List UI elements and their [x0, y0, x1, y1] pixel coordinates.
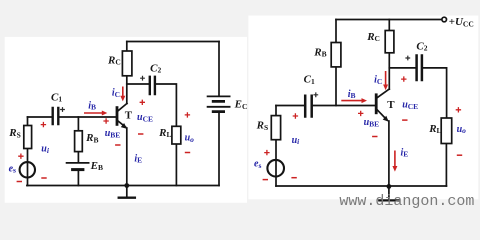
plus uCE (left) — [140, 100, 145, 105]
svg-text:es: es — [9, 163, 16, 174]
resistor RL — [441, 118, 452, 144]
plus ui (right) — [293, 113, 298, 118]
resistor RS — [271, 116, 280, 140]
left canvas — [5, 37, 247, 203]
wire: RB to EB — [77, 152, 79, 163]
svg-text:iE: iE — [134, 153, 142, 164]
wire: C1 to base — [59, 116, 115, 118]
wire: base rail left — [276, 105, 304, 107]
minus es (right) — [263, 179, 268, 181]
source es circle — [267, 160, 284, 177]
source es circle — [20, 162, 35, 177]
minus uBE (right) — [372, 136, 377, 138]
black capacitor polarity plus marks — [60, 56, 410, 112]
transistor T2 collector diagonal — [377, 89, 389, 98]
transistor T1 collector diagonal — [118, 103, 127, 111]
+Ucc terminal — [442, 17, 447, 22]
plus C2 (left) — [140, 76, 145, 81]
plus C1 (right) — [313, 92, 318, 97]
wire: top rail — [336, 19, 441, 21]
wire: emitter vertical — [126, 128, 128, 186]
wire: RB bottom stub — [335, 67, 337, 106]
plus es (right) — [264, 150, 269, 155]
svg-text:es: es — [254, 159, 261, 170]
wire: C1 to base — [313, 105, 375, 107]
battery EC plates — [208, 96, 230, 106]
minus uo (left) — [185, 152, 190, 154]
capacitor C1 plates — [53, 108, 59, 124]
wire: collector vertical — [126, 76, 128, 104]
capacitor C1 plates — [305, 96, 312, 117]
capacitor C2 plates — [150, 77, 155, 94]
wire: RB stub — [77, 117, 79, 131]
arrow iB (left) — [84, 112, 102, 114]
arrow iC (right) — [385, 71, 387, 85]
svg-text:iE: iE — [401, 147, 409, 158]
svg-text:iB: iB — [348, 89, 356, 100]
arrow iC (left) — [122, 87, 124, 97]
minus es (left) — [17, 181, 22, 183]
junction dot (left) — [124, 183, 129, 188]
wire: RL bottom — [445, 144, 447, 187]
ground (right) — [388, 187, 390, 201]
wire: emitter vertical — [388, 121, 390, 187]
svg-text:uBE: uBE — [364, 117, 380, 128]
arrow iE (right) — [394, 151, 396, 167]
svg-text:uo: uo — [457, 124, 467, 135]
wire: main input rail — [28, 116, 52, 118]
red polarity marks — [17, 76, 463, 181]
wire: RB top stub — [335, 20, 337, 43]
svg-text:T: T — [387, 99, 395, 111]
minus uCE (left) — [138, 133, 143, 135]
plus uCE (right) — [401, 76, 406, 81]
minus uCE (right) — [402, 119, 407, 121]
svg-text:www.diangon.com: www.diangon.com — [339, 193, 474, 210]
resistor RB — [75, 131, 83, 152]
wire: RS corner — [275, 106, 277, 116]
plus uBE (right) — [358, 111, 363, 116]
svg-text:uo: uo — [185, 133, 195, 144]
transistor T1 emitter arrowhead — [121, 123, 127, 129]
wire: C2 right to RL — [423, 68, 446, 118]
minus ui (right) — [291, 177, 296, 179]
junction dot (right) — [387, 184, 392, 189]
wire: bottom rail — [27, 185, 219, 187]
wire: source vertical — [275, 140, 277, 186]
plus es (left) — [18, 154, 23, 159]
svg-text:ui: ui — [292, 135, 301, 146]
plus C1 (left) — [60, 107, 65, 112]
wire: C2 branch — [127, 83, 149, 85]
wire: EB bottom — [77, 171, 79, 186]
minus uBE (left) — [115, 144, 120, 146]
svg-text:T: T — [125, 110, 133, 122]
wire: C2 branch — [389, 67, 415, 69]
wire: top rail — [127, 41, 219, 43]
plus uBE (left) — [103, 118, 108, 123]
plus uo (left) — [185, 112, 190, 117]
resistor RL — [172, 126, 181, 144]
minus ui (left) — [41, 177, 46, 179]
plus ui (left) — [41, 122, 46, 127]
resistor RS — [24, 126, 32, 149]
capacitor C2 plates — [417, 56, 422, 81]
transistor T2 emitter arrowhead — [383, 116, 389, 122]
wire: battery Ec top — [218, 42, 220, 96]
transistor T2 emitter diagonal — [377, 110, 387, 120]
ground (left) — [126, 186, 128, 198]
svg-text:uCE: uCE — [402, 100, 418, 111]
transistor T1 base bar — [116, 108, 119, 125]
arrow iB (right) — [341, 100, 362, 102]
wire: battery Ec bottom — [218, 112, 220, 185]
resistor RC — [122, 51, 131, 76]
minus uo (right) — [457, 154, 462, 156]
resistor RC — [385, 31, 394, 53]
plus C2 (right) — [405, 56, 410, 61]
svg-text:iC: iC — [374, 75, 382, 86]
battery EB plates — [67, 162, 89, 164]
wire: C2 right to RL — [156, 84, 176, 126]
transistor T2 base bar — [375, 95, 378, 113]
svg-text:ui: ui — [41, 144, 50, 155]
resistor RB — [331, 43, 341, 67]
wire: RC top stub — [388, 20, 390, 31]
right canvas — [248, 16, 478, 200]
wire: Rc top stub — [126, 42, 128, 52]
wire: collector vertical — [388, 53, 390, 89]
red current arrows — [84, 71, 397, 172]
svg-text:iC: iC — [112, 88, 120, 99]
svg-text:uBE: uBE — [105, 128, 121, 139]
wire: RL bottom — [175, 144, 177, 186]
wire: source/Rs vertical — [27, 117, 29, 186]
wire: bottom rail — [276, 185, 446, 187]
plus uo (right) — [456, 107, 461, 112]
transistor T1 emitter diagonal — [118, 121, 126, 127]
svg-text:uCE: uCE — [137, 112, 153, 123]
svg-text:iB: iB — [88, 100, 96, 111]
